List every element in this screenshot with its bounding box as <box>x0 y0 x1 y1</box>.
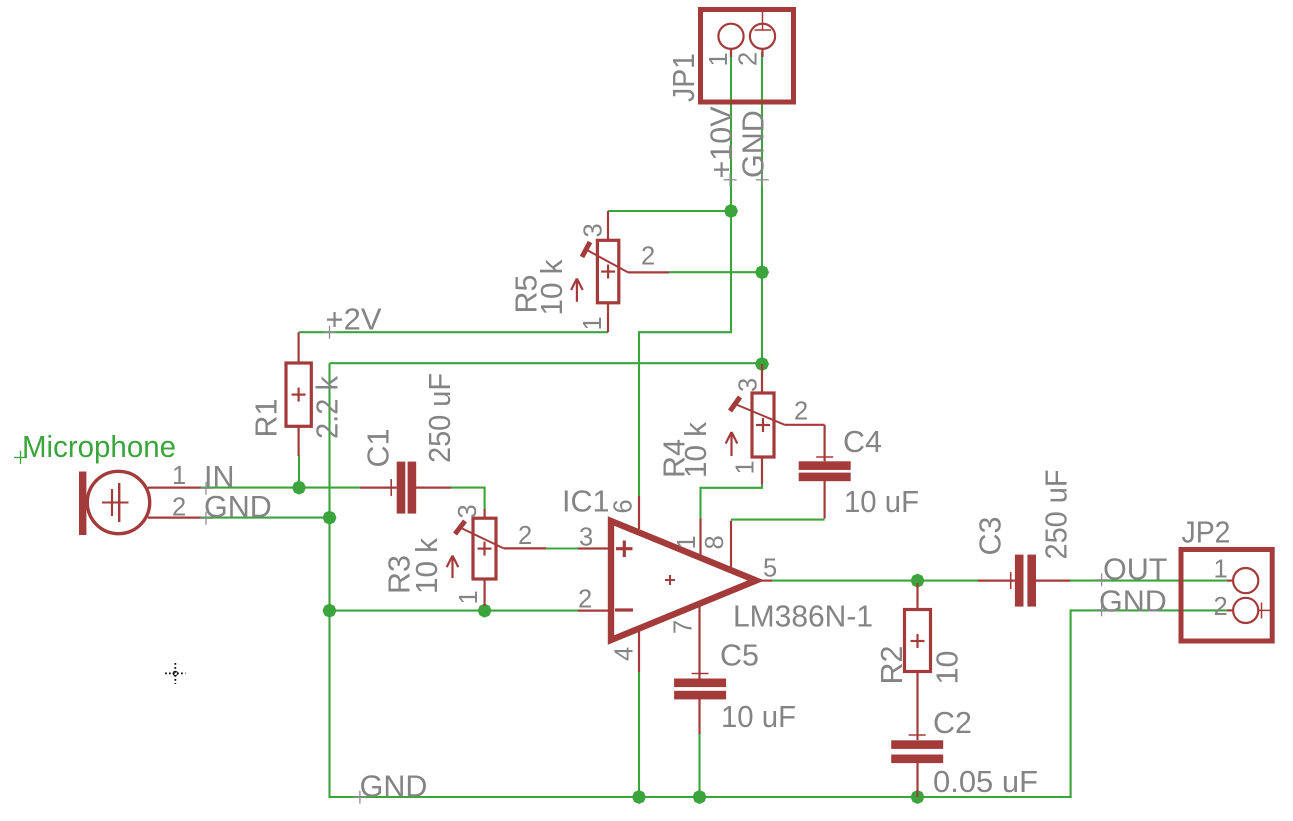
net label OUT <box>1103 553 1167 587</box>
label R3 <box>383 555 417 594</box>
svg-text:1: 1 <box>673 535 701 549</box>
label C5 <box>720 639 759 673</box>
wire GND horizontal long <box>330 362 763 364</box>
pin number R5-2 <box>641 243 655 271</box>
svg-text:3: 3 <box>579 524 593 552</box>
pin number IC1-1 <box>673 535 701 549</box>
value 250 uF of C1 <box>423 373 457 463</box>
svg-text:1: 1 <box>705 52 733 66</box>
net label GND at JP1 <box>737 110 771 178</box>
wire JP2 pin 2 GND down-left <box>1071 610 1227 798</box>
svg-text:2.2 k: 2.2 k <box>310 375 344 439</box>
wire +2V rail R1 to R5 pin 1 <box>299 331 608 333</box>
svg-text:10 uF: 10 uF <box>721 700 796 734</box>
svg-text:1: 1 <box>579 316 607 330</box>
svg-text:7: 7 <box>670 620 698 634</box>
origin cross Microphone label <box>14 451 27 464</box>
node junction C5 on GND rail <box>693 790 707 804</box>
wire C1 to R3 pin 3 <box>450 488 485 510</box>
origin cross mic GND label <box>200 512 213 525</box>
net label +2V <box>326 303 383 337</box>
value 0.05 uF <box>933 765 1038 799</box>
svg-text:10: 10 <box>931 651 965 685</box>
pin number R4-3 <box>735 378 763 392</box>
svg-text:IC1: IC1 <box>562 485 609 519</box>
pin stub R4 pin 3 <box>761 364 763 393</box>
svg-text:0.05 uF: 0.05 uF <box>933 765 1038 799</box>
svg-text:8: 8 <box>701 535 729 549</box>
label IC1 <box>562 485 609 519</box>
label R5 <box>510 275 544 314</box>
svg-text:6: 6 <box>610 499 638 513</box>
wire +10V from JP1 pin 1 down to junction <box>730 52 732 211</box>
svg-text:2: 2 <box>172 494 186 522</box>
pin number R5-1 <box>579 316 607 330</box>
label C4 <box>843 425 882 459</box>
pin stub R5 pin 3 <box>607 211 609 240</box>
svg-text:OUT: OUT <box>1103 553 1167 587</box>
pin number IC1-2 <box>578 586 592 614</box>
svg-text:+2V: +2V <box>326 303 383 337</box>
pin number JP2-1 <box>1214 556 1228 584</box>
wire IC1 pin 1 to R4 pin 1 <box>701 483 763 519</box>
label Microphone <box>22 430 176 464</box>
svg-text:LM386N-1: LM386N-1 <box>733 600 873 634</box>
svg-text:1: 1 <box>732 460 760 474</box>
label R2 <box>875 646 909 685</box>
svg-text:1: 1 <box>455 590 483 604</box>
svg-text:2: 2 <box>641 243 655 271</box>
pin number IC1-8 <box>701 535 729 549</box>
pin stub R2 top <box>916 583 918 610</box>
value 10 k of R4 <box>679 421 713 478</box>
origin cross +2V label <box>323 326 336 339</box>
label C1 <box>362 429 396 468</box>
svg-text:10 uF: 10 uF <box>844 485 919 519</box>
svg-text:R2: R2 <box>875 646 909 685</box>
node junction IN at R1 <box>292 481 306 495</box>
label C2 <box>933 706 972 740</box>
wire GND from JP1 pin 2 down <box>761 52 763 272</box>
label R1 <box>250 399 284 438</box>
net label +10V <box>705 106 739 179</box>
wire IC1 output to C3 <box>771 580 978 582</box>
value 10 uF of C4 <box>844 485 919 519</box>
svg-text:250 uF: 250 uF <box>1040 470 1074 560</box>
svg-text:2: 2 <box>1214 593 1228 621</box>
label C3 <box>974 517 1008 556</box>
pin number R5-3 <box>580 223 608 237</box>
svg-text:Microphone: Microphone <box>22 430 176 464</box>
resistor R1 2.2k <box>286 363 311 426</box>
wire GND rail to IC1 pin 2 <box>330 610 579 612</box>
pin stub R1 top <box>298 332 300 363</box>
svg-text:C3: C3 <box>974 517 1008 556</box>
svg-text:10 k: 10 k <box>679 421 713 478</box>
pin number R3-2 <box>518 522 532 550</box>
wire IC1 pin 8 to C4 <box>731 519 825 521</box>
svg-text:5: 5 <box>763 555 777 583</box>
node junction R3 pin 1 on GND rail <box>478 604 492 618</box>
trimpot R3 10k <box>447 518 546 579</box>
svg-text:10 k: 10 k <box>535 259 569 316</box>
pin number R4-1 <box>732 460 760 474</box>
origin cross GND label at JP1 <box>756 173 769 186</box>
wire R3 wiper to IC1 pin 3 <box>546 547 578 549</box>
capacitor C2 0.05uF <box>891 735 943 797</box>
wire R5 wiper to GND line <box>669 271 762 273</box>
wire IC1 pin 4 to GND rail <box>638 671 640 797</box>
svg-text:GND: GND <box>204 490 272 524</box>
connector JP2 <box>1181 550 1272 642</box>
origin cross IN label <box>200 482 213 495</box>
svg-text:JP2: JP2 <box>1182 516 1231 550</box>
svg-text:R1: R1 <box>250 399 284 438</box>
capacitor C1 250uF <box>360 462 451 514</box>
value 10 k of R3 <box>410 537 444 594</box>
node junction mic GND <box>323 511 337 525</box>
wire C3 to JP2 pin 1 OUT <box>1070 580 1227 582</box>
capacitor C5 10uF <box>674 674 726 735</box>
wire +10V down-left-down to IC1 pin 6 <box>639 211 731 496</box>
resistor R2 10 <box>905 610 931 672</box>
value 10 k of R5 <box>535 259 569 316</box>
pin number IC1-3 <box>579 524 593 552</box>
connector JP1 <box>701 10 794 103</box>
svg-text:C4: C4 <box>843 425 882 459</box>
microphone symbol <box>79 471 201 535</box>
node junction +10V at R5 tap <box>724 204 738 218</box>
svg-text:1: 1 <box>172 462 186 490</box>
node junction output at R2 <box>911 574 925 588</box>
svg-text:3: 3 <box>735 378 763 392</box>
pin number JP1-2 <box>735 52 763 66</box>
trimpot R5 10k <box>571 240 669 302</box>
pin stub R1 bottom <box>298 426 300 456</box>
svg-text:2: 2 <box>794 398 808 426</box>
origin cross JP2 GND label <box>1095 603 1108 616</box>
label JP2 <box>1182 516 1231 550</box>
svg-text:10 k: 10 k <box>410 537 444 594</box>
value LM386N-1 <box>733 600 873 634</box>
value 250 uF of C3 <box>1040 470 1074 560</box>
trimpot R4 10k <box>726 393 825 457</box>
capacitor C4 10uF <box>799 425 851 519</box>
svg-text:1: 1 <box>1214 556 1228 584</box>
pin number R3-3 <box>454 504 482 518</box>
node junction GND at R4 <box>755 357 769 371</box>
svg-text:2: 2 <box>578 586 592 614</box>
svg-text:C1: C1 <box>362 429 396 468</box>
pin number mic-2 <box>172 494 186 522</box>
wire R1 bottom to IN <box>298 455 300 488</box>
pin number JP2-2 <box>1214 593 1228 621</box>
svg-text:GND: GND <box>737 110 771 178</box>
node junction GND rail left <box>323 604 337 618</box>
op-amp IC1 LM386N-1 <box>578 496 772 679</box>
svg-text:2: 2 <box>518 522 532 550</box>
svg-text:3: 3 <box>580 223 608 237</box>
net label GND bottom rail <box>360 770 428 804</box>
pin stub R4 pin 1 <box>761 457 763 484</box>
node junction R5 wiper / GND <box>755 265 769 279</box>
net label IN <box>204 460 235 494</box>
wire microphone IN <box>201 487 360 489</box>
svg-text:4: 4 <box>611 647 639 661</box>
svg-text:JP1: JP1 <box>667 53 701 102</box>
svg-text:GND: GND <box>1099 585 1167 619</box>
capacitor C3 250uF <box>978 555 1070 607</box>
svg-text:3: 3 <box>454 504 482 518</box>
pin number R3-1 <box>455 590 483 604</box>
svg-text:GND: GND <box>360 770 428 804</box>
node junction IC1 pin 4 on GND rail <box>632 790 646 804</box>
pin number IC1-4 <box>611 647 639 661</box>
sheet origin cross <box>165 663 186 684</box>
wire GND left vertical <box>328 363 330 798</box>
label JP1 <box>667 53 701 102</box>
pin number JP1-1 <box>705 52 733 66</box>
origin cross OUT label <box>1095 573 1108 586</box>
wire microphone GND <box>201 517 330 519</box>
net label GND at JP2 <box>1099 585 1167 619</box>
svg-text:250 uF: 250 uF <box>423 373 457 463</box>
pin stub R3 pin 1 <box>484 579 486 606</box>
svg-text:C2: C2 <box>933 706 972 740</box>
value 2.2 k <box>310 375 344 439</box>
net label GND at mic <box>204 490 272 524</box>
value 10 of R2 <box>931 651 965 685</box>
pin number IC1-6 <box>610 499 638 513</box>
wire bottom GND rail <box>329 796 1072 798</box>
pin number IC1-7 <box>670 620 698 634</box>
origin cross +10V label <box>724 173 737 186</box>
wire junction to R5 pin 3 <box>608 210 731 212</box>
wire GND vertical to lower junction <box>761 272 763 364</box>
pin number IC1-5 <box>763 555 777 583</box>
node junction C2 on GND rail <box>911 790 925 804</box>
pin stub R2 bottom <box>916 672 918 741</box>
value 10 uF of C5 <box>721 700 796 734</box>
svg-text:C5: C5 <box>720 639 759 673</box>
wire C5 to GND rail <box>698 733 700 797</box>
pin number mic-1 <box>172 462 186 490</box>
pin number R4-2 <box>794 398 808 426</box>
svg-text:2: 2 <box>735 52 763 66</box>
origin cross bottom GND label <box>353 791 366 804</box>
label R4 <box>658 439 692 478</box>
pin stub R5 pin 1 <box>607 303 609 332</box>
svg-text:+10V: +10V <box>705 106 739 179</box>
pin stub R3 pin 3 <box>484 509 486 518</box>
